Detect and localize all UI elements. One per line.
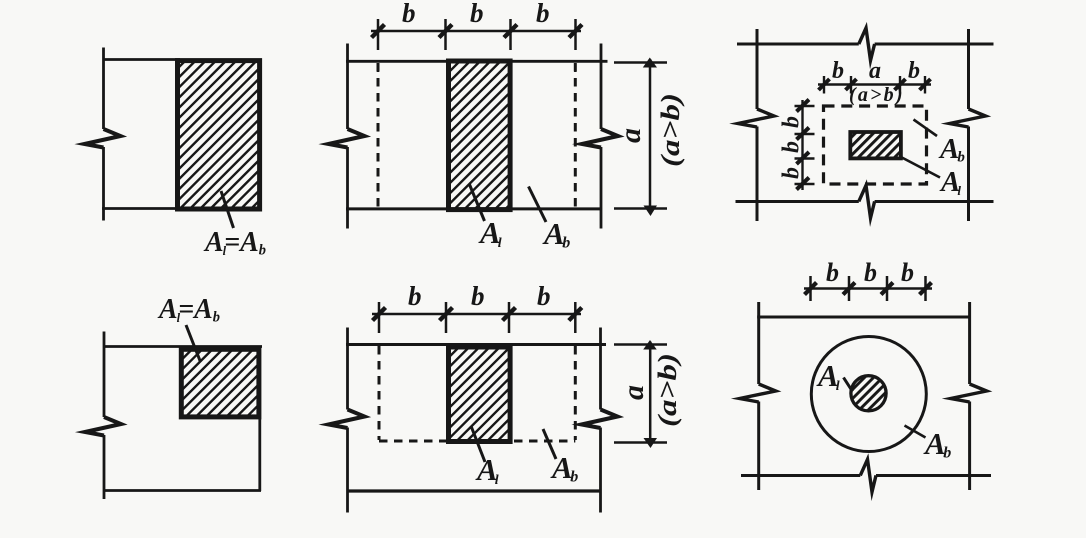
right edge line below hatch (258, 419, 261, 491)
svg-text:(a>b): (a>b) (653, 353, 682, 427)
svg-text:(a>b): (a>b) (656, 93, 685, 167)
svg-text:b: b (779, 167, 805, 179)
break symbol left (329, 410, 365, 429)
break symbol (85, 417, 121, 436)
break symbol on left line (85, 129, 121, 148)
top edge line (757, 315, 971, 318)
extension line bottom right (614, 441, 667, 444)
horizontal dimension line b a b (818, 83, 931, 85)
break symbol left (740, 384, 776, 402)
svg-text:b: b (826, 258, 839, 287)
leader line (186, 325, 201, 362)
left wall line (346, 44, 349, 229)
svg-text:Al: Al (939, 166, 961, 198)
vertical dimension line a (649, 59, 652, 213)
bottom edge line (347, 489, 602, 492)
left boundary line with break (756, 29, 759, 221)
dimension line b+b+b (372, 313, 581, 316)
left wall line (346, 328, 349, 513)
svg-text:Al=Ab: Al=Ab (157, 293, 220, 326)
arrow down (644, 206, 658, 217)
hatched area Al (449, 61, 511, 210)
dashed boundary right (574, 346, 577, 440)
hatched circle Al (851, 376, 886, 411)
dimension arrows (805, 283, 932, 295)
top edge line (346, 343, 606, 346)
svg-text:b: b (908, 58, 920, 84)
leader to Ab (543, 429, 556, 459)
dimension arrows (819, 79, 931, 90)
svg-text:Al=Ab: Al=Ab (203, 226, 266, 259)
top edge line (104, 345, 263, 348)
leader to Al (471, 426, 485, 462)
dashed boundary left (378, 346, 381, 440)
svg-text:b: b (471, 281, 485, 311)
svg-text:b: b (779, 116, 805, 128)
break symbol right (582, 410, 618, 429)
hatched area Al (850, 132, 901, 158)
svg-text:(a>b): (a>b) (849, 84, 905, 106)
break symbol right (950, 109, 986, 127)
dimension arrows (372, 25, 583, 38)
top boundary line with break (737, 43, 994, 46)
top edge line (104, 58, 181, 61)
right boundary line with break (967, 29, 970, 221)
hatched area Al=Ab (181, 349, 259, 417)
svg-text:b: b (779, 141, 805, 153)
break symbol bottom (860, 459, 876, 492)
leader to Ab (529, 187, 547, 223)
svg-text:b: b (901, 258, 914, 287)
left wall line (757, 302, 760, 490)
vertical dim arrows (797, 100, 810, 190)
small tick below top line right (574, 64, 577, 72)
dashed boundary bottom (379, 440, 575, 443)
svg-text:Al: Al (475, 452, 499, 488)
leader from Al to circle (844, 378, 853, 392)
circle Ab (811, 337, 926, 452)
arrow down (644, 438, 658, 448)
svg-text:a: a (617, 385, 650, 400)
svg-text:Al: Al (816, 358, 840, 394)
vertical dimension line b b b (801, 100, 803, 190)
extension line bottom right (614, 207, 667, 210)
leader to Ab (905, 426, 926, 438)
hatched area Al=Ab (178, 61, 260, 209)
svg-text:b: b (402, 0, 416, 28)
left wall line (103, 332, 106, 500)
dashed boundary right (574, 63, 577, 207)
dimension line b+b+b (371, 30, 581, 33)
extension line top right (614, 61, 667, 64)
bottom edge line (346, 207, 602, 210)
vertical dimension line a (649, 342, 652, 446)
svg-text:b: b (408, 281, 422, 311)
dashed boundary left (377, 63, 380, 207)
bottom edge line (102, 207, 180, 210)
arrow up (643, 340, 657, 350)
dimension line b b b (804, 287, 932, 290)
svg-text:b: b (470, 0, 484, 28)
break symbol right (582, 129, 618, 148)
hatched area Al (449, 347, 511, 442)
dimension arrows (373, 308, 582, 321)
leader to Al (470, 185, 485, 222)
right wall line (600, 44, 603, 229)
break symbol top (859, 28, 875, 61)
leader to Ab (914, 120, 938, 137)
leader line to label (221, 191, 234, 228)
arrow up (643, 58, 657, 68)
dimension ticks (378, 19, 576, 50)
svg-text:a: a (869, 58, 881, 84)
wall edge vertical line (102, 48, 105, 221)
svg-text:b: b (536, 0, 550, 28)
break symbol right (951, 384, 987, 402)
break symbol left (738, 109, 774, 127)
dashed rect Ab boundary (824, 106, 927, 184)
svg-text:a: a (614, 128, 647, 143)
leader to Al (899, 156, 940, 178)
extension line top right (614, 343, 667, 346)
right wall line (968, 302, 971, 490)
svg-text:b: b (537, 281, 551, 311)
bottom boundary line with break (736, 200, 994, 203)
top edge line (346, 60, 608, 63)
svg-text:b: b (832, 58, 844, 84)
break symbol left (329, 129, 365, 148)
svg-text:Al: Al (478, 215, 502, 251)
break symbol bottom (859, 185, 875, 218)
bottom edge line (104, 489, 261, 492)
right wall line (599, 328, 602, 513)
small tick below top line left (377, 64, 380, 72)
bottom edge line with break (741, 474, 991, 477)
svg-text:b: b (864, 258, 877, 287)
